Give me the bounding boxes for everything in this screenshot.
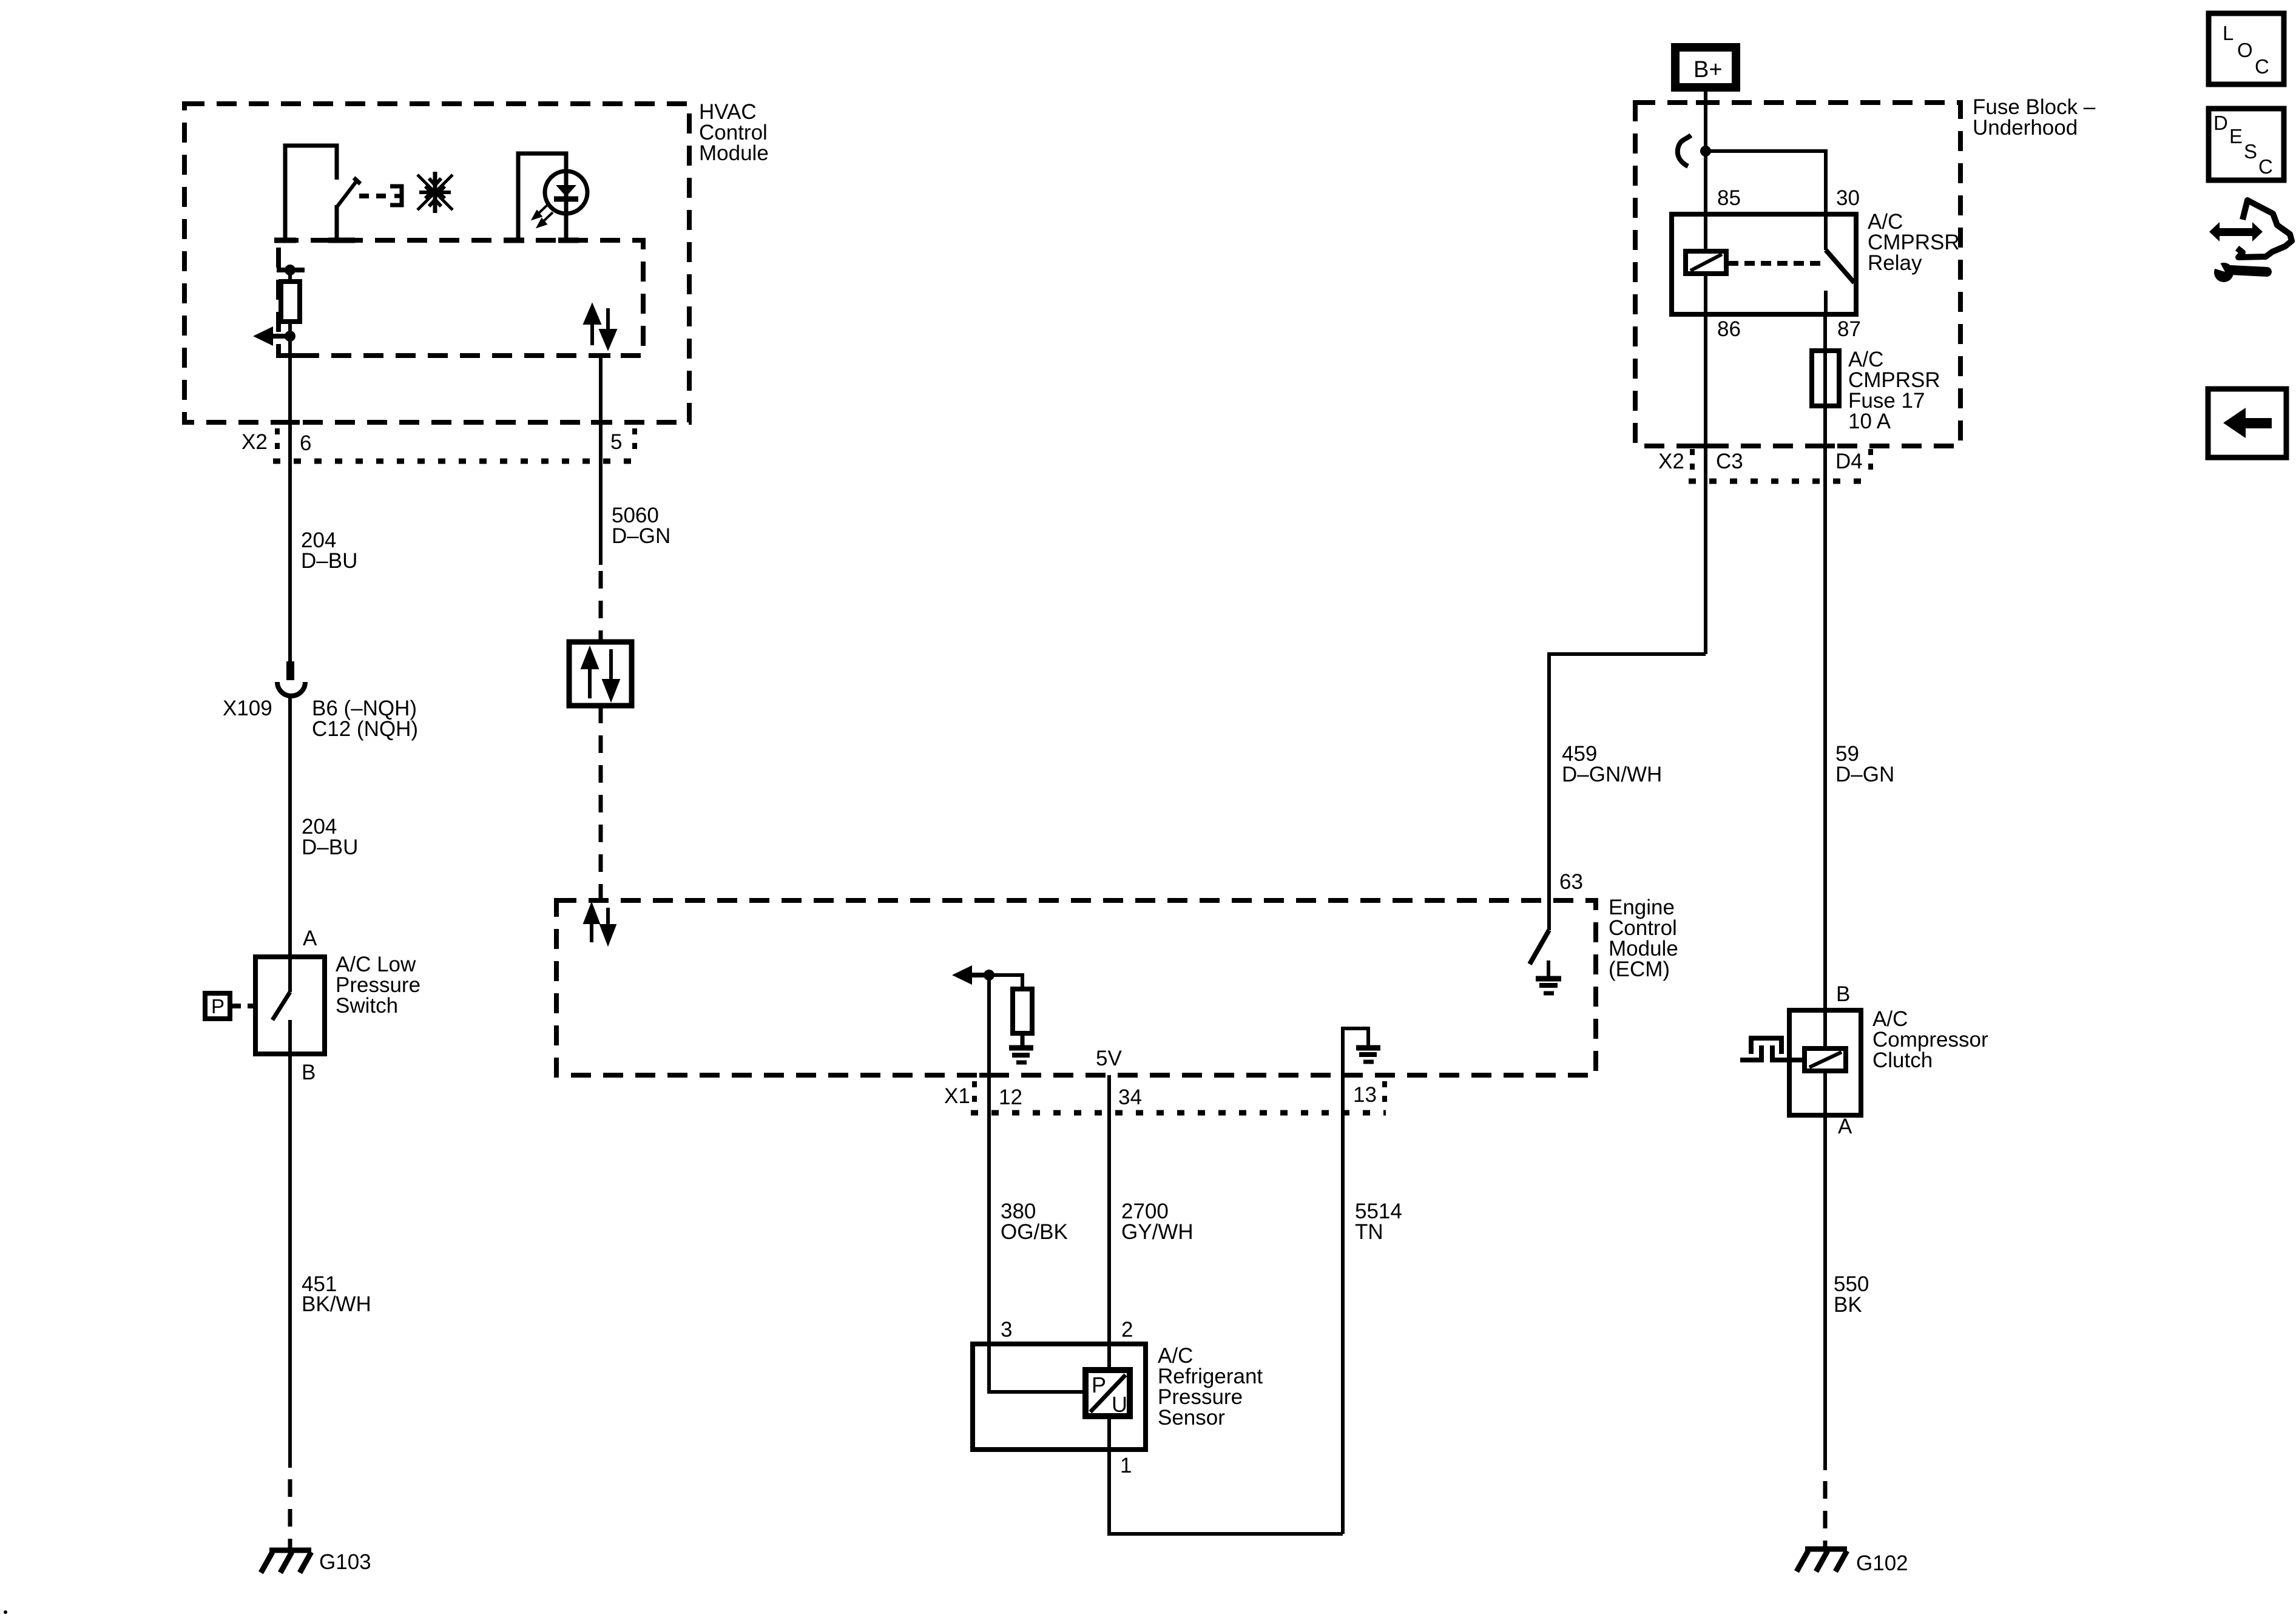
svg-text:X2: X2 [241,430,268,454]
LED triangle and bar [556,185,576,197]
LED circle [545,171,587,214]
svg-text:85: 85 [1717,186,1741,210]
ECM internal ground 2 [1356,1048,1380,1062]
border tick [591,353,610,358]
wire label 451 BK/WH [302,1272,371,1316]
relay switch [1826,214,1854,314]
clutch mechanical linkage [1740,1038,1805,1060]
svg-text:Clutch: Clutch [1872,1048,1933,1072]
wire 5514 [1341,1075,1345,1534]
thermo switch loop wire [274,146,337,241]
ECM serial data arrows [586,906,614,942]
ECM pin 12 junction dot [984,970,994,981]
wire label 550 BK [1834,1272,1869,1317]
ground G102 [1797,1549,1847,1571]
wire label 5060 D-GN [612,504,670,548]
svg-text:D4: D4 [1835,450,1863,473]
actuator bracket [390,186,402,205]
ECM internal ground 3 [1536,979,1561,993]
svg-text:Underhood: Underhood [1973,116,2078,140]
svg-text:5V: 5V [1096,1047,1122,1070]
wire 5060 upper [599,356,603,565]
svg-text:X1: X1 [944,1084,970,1108]
LOC icon box [2209,13,2284,84]
svg-text:D–GN: D–GN [612,524,670,548]
svg-text:L: L [2223,22,2234,44]
wire coil to pin 86 [1704,274,1707,314]
pressure switch contacts [272,957,290,1054]
svg-text:86: 86 [1717,317,1741,341]
svg-text:P: P [1092,1372,1106,1397]
svg-text:C: C [2258,155,2273,178]
resistor (HVAC pull-up) [281,282,300,322]
wire 459 runs to ECM pin 63 [1549,654,1706,900]
signal arrow left [253,326,290,346]
wire dashed to ground [288,1479,292,1550]
svg-text:D–GN/WH: D–GN/WH [1562,763,1662,786]
svg-text:A: A [303,927,317,950]
wire dashed to ground [1823,1481,1828,1549]
HVAC Control Module box [184,104,689,422]
A/C indicator LED loop wire [504,154,579,241]
svg-text:3: 3 [1001,1318,1012,1342]
wire 380 [987,1075,991,1344]
svg-text:Module: Module [699,141,769,165]
snowflake icon [417,172,453,213]
DESC icon box [2209,109,2284,180]
svg-text:87: 87 [1837,317,1861,341]
border ticks [1696,444,1715,448]
wire B+ down [1704,92,1707,214]
wire 5060 dashed [599,571,603,642]
svg-text:OG/BK: OG/BK [1001,1220,1068,1244]
wire to pin 6 [288,336,292,663]
svg-text:D–BU: D–BU [301,549,357,573]
thermo switch blade [328,178,360,240]
svg-text:(ECM): (ECM) [1609,957,1670,981]
relay coil wire [1704,214,1707,254]
wire 204 lower [288,696,292,957]
wire 59 down to clutch [1823,446,1827,1010]
svg-text:BK/WH: BK/WH [302,1292,371,1316]
wire label 59 D-GN [1835,742,1894,786]
svg-text:BK: BK [1834,1293,1862,1317]
connector X1 bracket bottom edge [971,1110,1386,1116]
bracket bottom edge [1689,479,1872,484]
ECM resistor [1013,989,1032,1033]
svg-text:Switch: Switch [336,994,398,1018]
wire pin 12 [987,975,991,1075]
svg-text:1: 1 [1120,1454,1132,1477]
svg-text:B: B [302,1061,316,1084]
wire 550 [1823,1115,1827,1470]
A/C CMPRSR relay box [1672,214,1856,314]
border tick [280,420,300,425]
ECM signal arrow [952,965,989,985]
switch actuator dashed link [359,194,387,198]
svg-text:C12 (NQH): C12 (NQH) [312,717,418,741]
serial data box [569,642,632,706]
svg-text:X2: X2 [1658,450,1684,473]
Engine Control Module box [556,900,1596,1075]
wire label 5514 TN [1355,1200,1402,1244]
wire label 204 D-BU lower [302,815,358,859]
Fuse Block label [1973,95,2096,140]
relay coil [1686,251,1726,274]
svg-text:63: 63 [1559,870,1583,894]
resistor node bar [277,268,305,272]
svg-text:5: 5 [610,430,622,454]
hook symbol [1678,135,1691,166]
fuse label [1848,348,1940,433]
svg-text:13: 13 [1353,1083,1377,1107]
wire label 459 D-GN/WH [1562,742,1662,786]
Fuse Block Underhood box [1635,103,1960,446]
connector X1 bracket right edge [1382,1081,1387,1108]
svg-text:B: B [1836,982,1850,1006]
svg-text:D: D [2213,112,2228,134]
border tick [1696,100,1715,105]
clutch coil wire [1823,1010,1827,1048]
wire [288,322,292,336]
ECM switch to ground (pin 63) [1530,900,1549,976]
border tick [280,353,300,358]
B+ feed box [1675,47,1736,87]
connector X2 bracket right edge [632,428,637,457]
svg-text:C: C [2255,55,2269,78]
ground G103 [261,1550,311,1573]
A/C CMPRSR fuse 17 [1812,351,1839,406]
svg-text:GY/WH: GY/WH [1121,1220,1194,1244]
svg-text:S: S [2244,140,2257,163]
relay actuator dashed line [1728,261,1820,266]
border tick [979,1073,999,1078]
svg-text:D–GN: D–GN [1835,763,1894,786]
A/C low pressure switch box [255,957,325,1054]
P dashed link [232,1004,255,1008]
wire label 380 OG/BK [1001,1200,1068,1244]
svg-text:C3: C3 [1716,450,1743,473]
svg-text:X109: X109 [223,697,272,720]
wire 87 to fuse [1823,314,1827,446]
junction dot [285,331,295,342]
diagnostic icon double arrow [2209,222,2263,241]
ECM pull-up wire [989,975,1022,989]
wire label 2700 GY/WH [1121,1200,1194,1244]
wire pin 1 to 5514 [1109,1450,1343,1534]
svg-text:D–BU: D–BU [302,836,358,859]
A/C compressor clutch box [1789,1010,1861,1115]
connector X2 bracket bottom edge [273,459,635,464]
svg-text:Sensor: Sensor [1158,1406,1225,1430]
LED light arrows [533,204,553,226]
back arrow icon box [2208,389,2286,457]
svg-text:2: 2 [1121,1318,1133,1342]
relay label [1868,210,1960,275]
wire [1021,1033,1025,1045]
HVAC internal sub-box (dashed) [279,240,643,356]
connector X2 bracket left edge [275,428,280,457]
wire coil to pin A [1823,1071,1827,1115]
svg-text:12: 12 [999,1085,1022,1109]
in-line connector X109 [277,661,305,696]
wire 2700 (5V) [1107,1075,1111,1370]
ECM internal ground 1 [1009,1048,1033,1062]
serial data arrows [583,649,618,698]
bracket left edge [1690,449,1695,476]
wire 86 down [1704,314,1707,654]
svg-text:G103: G103 [319,1550,371,1574]
X109 pin labels [312,697,418,741]
clutch coil [1805,1048,1846,1071]
serial data up/down arrows (inner box) [586,307,615,346]
svg-text:B+: B+ [1693,57,1723,83]
ECM label [1609,896,1678,981]
junction dot B+ [1700,146,1711,157]
wire label 204 D-BU [301,528,357,573]
wire to pin 30 [1706,151,1826,214]
svg-text:Relay: Relay [1868,251,1922,275]
wire 451 [288,1054,292,1468]
sensor P/U element [1086,1370,1130,1417]
A/C Low Pressure Switch label [336,953,420,1018]
diagnostic icon wrench [2206,255,2267,282]
svg-text:G102: G102 [1856,1551,1908,1575]
sensor internal wiring [989,1344,1109,1450]
P actuator box [205,993,230,1019]
sensor label [1158,1344,1263,1430]
svg-text:10 A: 10 A [1848,410,1891,433]
HVAC Control Module label [699,100,769,165]
border tick [591,420,610,425]
diagnostic icon outline [2237,200,2292,257]
ECM ground branch pin 13 [1343,1028,1368,1075]
svg-text:P: P [211,995,225,1018]
svg-text:U: U [1112,1392,1127,1417]
svg-text:30: 30 [1836,186,1860,210]
wire 204 upper [288,461,292,663]
svg-text:34: 34 [1118,1085,1142,1109]
svg-text:E: E [2229,125,2243,147]
svg-text:6: 6 [300,431,311,455]
connector X1 bracket left edge [972,1081,977,1108]
A/C refrigerant pressure sensor box [973,1344,1146,1450]
wire dashed to ECM [599,706,603,900]
bracket right edge [1868,449,1873,476]
junction dot top [285,265,295,275]
svg-text:TN: TN [1355,1220,1383,1244]
svg-text:A: A [1838,1115,1852,1138]
svg-text:O: O [2237,39,2253,61]
clutch label [1872,1007,1988,1072]
wire [288,270,292,282]
